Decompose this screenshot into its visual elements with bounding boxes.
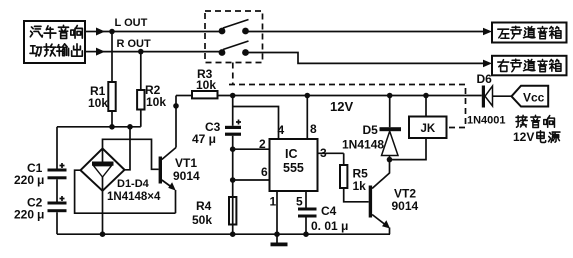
ground symbol [276,234,278,242]
node dot collector/D5/JK [387,157,393,163]
IC 555 [270,139,318,191]
node junction L/R1 [109,29,115,35]
node junction R/R2 [138,49,144,55]
node dot pin1/rail [274,231,280,237]
svg-text:D6: D6 [477,72,493,86]
svg-text:R4: R4 [196,199,212,213]
svg-text:C4: C4 [321,204,337,218]
svg-text:L OUT: L OUT [115,17,148,29]
svg-text:50k: 50k [192,213,212,227]
svg-text:47 μ: 47 μ [192,132,216,146]
wire L switch to left speaker [249,31,485,33]
svg-text:6: 6 [261,165,268,179]
wire R line to switch [103,51,219,53]
capacitor C3 [232,96,234,126]
wire pin2 [233,148,270,150]
svg-text:1N4001: 1N4001 [467,115,506,127]
wire JK bottom to collector node [390,138,427,160]
wire C1 to C2 [56,179,58,201]
svg-text:1N4148×4: 1N4148×4 [107,191,161,203]
svg-text:10k: 10k [88,96,108,110]
node dot R1/rail [109,124,115,130]
svg-text:10k: 10k [196,78,216,92]
wire C3 bottom column [232,136,234,234]
svg-text:Vcc: Vcc [523,91,545,105]
wire VT2 collector up [389,156,391,174]
wire VT1 collector up [175,96,177,148]
capacitor C1 [48,163,67,179]
svg-text:R OUT: R OUT [117,38,152,50]
node dot C4/rail [303,231,309,237]
wire L from source box with arrow [85,31,97,33]
capacitor C4 [298,208,317,218]
svg-text:3: 3 [320,146,327,160]
wire R switch to right speaker (with jog) [249,53,485,64]
wire pin8 [306,96,308,140]
wire bridge top vertex jog to VT1 base [103,139,159,169]
switch S2 (R channel relay contact) [219,49,226,56]
label 接音响 12V电源 [516,115,554,127]
wire 12V rail [218,95,482,97]
wire pin5 [305,191,307,208]
ground rail [57,233,390,235]
node dot collector/pin4 branch [173,103,179,109]
wire bridge left vertex down and bottom loop to VT1 emitter [75,170,176,213]
svg-text:JK: JK [421,123,436,135]
dashed mechanical link from contacts to relay coil JK [232,63,234,85]
wire pin4 branch [233,107,279,140]
transistor VT2 9014 [369,173,390,229]
node dot bridge/ground rail [100,231,106,237]
wire VT1 emitter down [175,190,177,213]
wire pin1 [276,191,278,234]
node dot rail/C3 [230,93,236,99]
wire left column down to C1 [56,127,58,169]
svg-text:12V: 12V [513,130,534,144]
svg-text:1: 1 [270,195,277,209]
resistor R5 [343,153,345,165]
wire VT2 emitter to ground rail [389,228,391,235]
node dot bridge-right/rail [127,124,133,130]
node dot rail/D5 [387,93,393,99]
svg-text:8: 8 [310,122,317,136]
svg-text:μ: μ [37,208,44,222]
svg-text:IC: IC [285,147,298,161]
node dot pin6 [230,177,236,183]
wire pin3 [318,152,344,154]
svg-text:1k: 1k [353,179,367,193]
source box 汽车音响/功放输出 [24,21,85,63]
wire R from source box with arrow [85,51,97,53]
resistor R3 [176,95,192,97]
diode D6 1N4001 [482,86,485,108]
diode D5 1N4148 [389,96,391,128]
relay contact box (dashed) [205,11,263,63]
svg-text:0. 01 μ: 0. 01 μ [311,219,348,233]
wire C2 to ground rail [56,212,58,234]
svg-text:5: 5 [296,195,303,209]
svg-text:9014: 9014 [173,169,200,183]
right speaker box 右声道音箱 [492,56,567,76]
switch S1 (L channel relay contact) [219,28,226,35]
node dot rail/pin8 [305,93,311,99]
svg-text:D5: D5 [363,123,379,137]
svg-text:VT1: VT1 [175,156,197,170]
svg-text:μ: μ [37,173,44,187]
diode bridge D1-D4 [81,149,125,191]
wire L line to switch [103,31,219,33]
node dot rail/JK [423,93,429,99]
capacitor C2 [48,196,67,212]
svg-text:D1-D4: D1-D4 [117,178,150,190]
wire bridge bottom vertex to ground rail [102,191,104,234]
svg-text:10k: 10k [146,95,166,109]
resistor R4 [229,197,236,225]
svg-text:4: 4 [278,123,285,137]
svg-text:1N4148: 1N4148 [342,138,384,152]
wire rail joining R1,R2 bottoms [57,126,141,128]
resistor R2 [140,52,142,90]
node dot pin2 [230,146,236,152]
Vcc supply flag [512,86,549,107]
svg-text:555: 555 [283,161,304,175]
left speaker box 左声道音箱 [492,23,567,43]
svg-text:2: 2 [259,137,266,151]
transistor VT1 9014 [159,148,176,191]
svg-text:9014: 9014 [392,199,419,213]
wire bridge right vertex up to rail [125,127,131,170]
node dot R4/rail [230,231,236,237]
svg-text:220: 220 [14,208,34,222]
relay coil JK [425,96,427,117]
wire pin6 [233,179,270,181]
svg-text:12V: 12V [330,99,353,114]
svg-text:220: 220 [14,173,34,187]
resistor R1 [111,32,113,83]
